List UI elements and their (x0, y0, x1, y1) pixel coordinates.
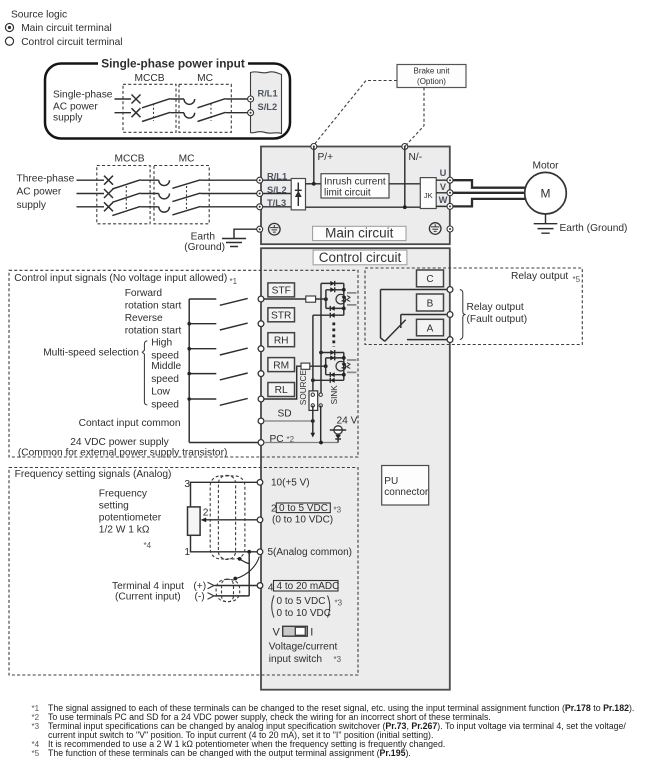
svg-text:Frequency setting signals (Ana: Frequency setting signals (Analog) (15, 469, 172, 480)
svg-text:(Ground): (Ground) (184, 242, 225, 253)
svg-text:2: 2 (203, 508, 209, 519)
svg-text:V: V (273, 626, 281, 638)
svg-text:Inrush current: Inrush current (324, 177, 386, 188)
svg-text:*5: *5 (573, 275, 581, 284)
svg-text:*3: *3 (334, 655, 342, 664)
svg-text:Source logic: Source logic (11, 9, 67, 20)
svg-text:(Common for external power sup: (Common for external power supply transi… (18, 447, 228, 458)
svg-text:24 V: 24 V (337, 416, 358, 427)
svg-text:MCCB: MCCB (135, 73, 165, 84)
svg-text:P/+: P/+ (318, 152, 334, 163)
svg-text:speed: speed (151, 374, 179, 385)
svg-text:C: C (426, 274, 433, 285)
svg-text:Earth (Ground): Earth (Ground) (560, 223, 628, 234)
svg-text:rotation start: rotation start (125, 300, 182, 311)
svg-text:1/2 W 1 kΩ: 1/2 W 1 kΩ (99, 525, 150, 536)
svg-text:Frequency: Frequency (99, 489, 148, 500)
svg-text:RM: RM (273, 360, 289, 371)
svg-text:speed: speed (151, 399, 179, 410)
svg-text:M: M (541, 187, 551, 201)
svg-text:10(+5 V): 10(+5 V) (271, 477, 310, 488)
svg-text:Reverse: Reverse (125, 313, 163, 324)
svg-text:Relay output: Relay output (467, 302, 524, 313)
svg-text:I: I (310, 626, 313, 638)
svg-text:0 to 10 VDC: 0 to 10 VDC (277, 608, 331, 619)
svg-text:0 to 5 VDC: 0 to 5 VDC (279, 503, 328, 514)
svg-text:Forward: Forward (125, 288, 163, 299)
svg-text:*4: *4 (32, 740, 40, 749)
svg-text:Control input signals (No volt: Control input signals (No voltage input … (14, 273, 227, 284)
svg-text:1: 1 (184, 547, 190, 558)
svg-text:rotation start: rotation start (125, 325, 182, 336)
svg-text:(Fault output): (Fault output) (467, 314, 528, 325)
svg-text:SD: SD (278, 409, 292, 420)
svg-text:SINK: SINK (330, 385, 339, 405)
svg-text:Control circuit: Control circuit (319, 250, 402, 265)
svg-text:(Current input): (Current input) (115, 591, 181, 602)
svg-text:Multi-speed selection: Multi-speed selection (43, 348, 139, 359)
svg-text:B: B (427, 298, 434, 309)
svg-text:3: 3 (184, 479, 190, 490)
svg-text:SOURCE: SOURCE (299, 370, 308, 406)
svg-text:4 to 20 mADC: 4 to 20 mADC (277, 581, 340, 592)
svg-text:Contact input common: Contact input common (79, 418, 181, 429)
svg-text:*4: *4 (144, 541, 152, 550)
svg-text:*3: *3 (32, 722, 40, 731)
svg-text:(-): (-) (195, 591, 205, 602)
svg-text:setting: setting (99, 501, 129, 512)
svg-text:(Option): (Option) (417, 77, 446, 86)
svg-text:Motor: Motor (532, 161, 559, 172)
svg-text:AC power: AC power (53, 102, 98, 113)
svg-text:Voltage/current: Voltage/current (269, 642, 338, 653)
svg-text:Single-phase power input: Single-phase power input (101, 57, 245, 71)
svg-text:RL: RL (275, 385, 288, 396)
svg-text:Control circuit terminal: Control circuit terminal (21, 37, 122, 48)
svg-text:STF: STF (272, 286, 291, 297)
svg-text:0 to 5 VDC: 0 to 5 VDC (277, 596, 326, 607)
svg-text:V: V (440, 182, 447, 192)
svg-text:MC: MC (179, 154, 195, 165)
svg-text:*2: *2 (32, 713, 40, 722)
svg-text:*5: *5 (32, 749, 40, 758)
svg-text:supply: supply (17, 200, 47, 211)
svg-text:Single-phase: Single-phase (53, 90, 113, 101)
svg-text:*3: *3 (335, 599, 343, 608)
svg-text:Terminal 4 input: Terminal 4 input (112, 581, 184, 592)
svg-text:RH: RH (274, 335, 289, 346)
svg-text:*1: *1 (230, 277, 238, 286)
svg-text:W: W (439, 195, 448, 205)
svg-text:PC: PC (270, 434, 284, 445)
svg-text:Middle: Middle (151, 361, 181, 372)
svg-text:PU: PU (384, 476, 398, 487)
svg-text:R/L1: R/L1 (258, 89, 278, 99)
svg-text:The function of these terminal: The function of these terminals can be c… (48, 748, 411, 758)
svg-text:N/-: N/- (409, 152, 423, 163)
svg-text:Relay output: Relay output (511, 271, 568, 282)
svg-text:*1: *1 (32, 704, 40, 713)
svg-text:Three-phase: Three-phase (17, 173, 75, 184)
svg-text:MC: MC (197, 73, 213, 84)
svg-text:5(Analog common): 5(Analog common) (268, 547, 352, 558)
svg-text:AC power: AC power (17, 187, 62, 198)
svg-text:STR: STR (271, 311, 291, 322)
svg-text:speed: speed (151, 350, 179, 361)
svg-text:24 VDC power supply: 24 VDC power supply (70, 437, 169, 448)
svg-text:*3: *3 (334, 506, 342, 515)
svg-text:input switch: input switch (269, 654, 322, 665)
svg-text:MCCB: MCCB (115, 154, 145, 165)
svg-text:JK: JK (424, 191, 433, 200)
svg-text:Earth: Earth (191, 232, 215, 243)
svg-text:potentiometer: potentiometer (99, 513, 162, 524)
svg-text:limit circuit: limit circuit (324, 188, 371, 199)
svg-text:High: High (151, 338, 172, 349)
svg-text:Low: Low (151, 387, 170, 398)
svg-text:(0 to 10 VDC): (0 to 10 VDC) (272, 514, 333, 525)
svg-text:Main circuit: Main circuit (325, 226, 394, 241)
svg-text:(+): (+) (193, 581, 206, 592)
svg-text:U: U (440, 168, 447, 178)
svg-text:connector: connector (384, 487, 429, 498)
svg-text:supply: supply (53, 113, 83, 124)
svg-text:Brake unit: Brake unit (413, 67, 450, 76)
svg-text:S/L2: S/L2 (258, 102, 278, 112)
svg-text:A: A (427, 323, 434, 334)
svg-text:Main circuit terminal: Main circuit terminal (21, 23, 112, 34)
